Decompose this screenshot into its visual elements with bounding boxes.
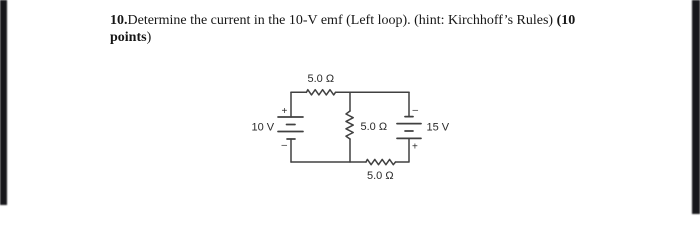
svg-text:5.0 Ω: 5.0 Ω — [361, 121, 388, 133]
wire left branch upper — [290, 92, 292, 117]
svg-text:–: – — [282, 140, 288, 151]
wire middle branch lower — [349, 139, 351, 162]
wire top-right segment — [336, 91, 410, 93]
resistor R2 5.0 ohm (middle) — [346, 111, 353, 139]
svg-text:–: – — [413, 105, 419, 116]
battery B1 10 V plate long top — [278, 116, 303, 118]
wire bottom-left segment — [291, 161, 366, 163]
resistor R1 5.0 ohm (top) — [306, 90, 335, 95]
battery B2 plate long — [397, 123, 421, 125]
right page border bar — [692, 0, 700, 214]
question text — [110, 12, 590, 46]
battery B2 plate short — [405, 130, 413, 132]
battery B1 plate short bottom — [287, 138, 295, 140]
left page border bar — [0, 0, 7, 205]
battery B1 plate short — [287, 124, 296, 126]
battery B1 plate long bottom — [278, 131, 303, 133]
wire left branch lower — [290, 139, 292, 162]
wire right branch lower — [408, 138, 410, 161]
svg-text:+: + — [282, 106, 288, 117]
resistor R3 5.0 ohm (bottom) — [366, 159, 396, 164]
wire middle branch upper — [349, 92, 351, 111]
wire bottom-right segment — [396, 161, 410, 163]
battery B2 plate long bottom — [397, 137, 421, 139]
battery B2 15 V plate short top — [405, 116, 413, 118]
wire top-left segment — [291, 91, 306, 93]
svg-text:5.0 Ω: 5.0 Ω — [367, 170, 394, 182]
svg-text:15 V: 15 V — [427, 122, 450, 134]
wire right branch upper — [408, 92, 410, 116]
svg-text:+: + — [412, 142, 418, 153]
svg-text:10 V: 10 V — [252, 122, 275, 134]
svg-text:5.0 Ω: 5.0 Ω — [308, 73, 335, 85]
